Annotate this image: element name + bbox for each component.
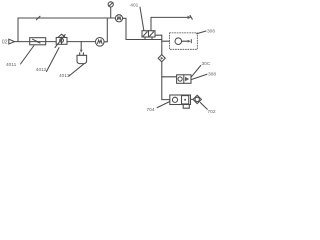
wire bottom run under valve [126, 39, 162, 41]
filter F1 diamond [158, 55, 165, 62]
wire main drop [161, 62, 163, 100]
wire input to throttle 4011 [15, 41, 30, 43]
component 4011 throttle box [30, 38, 46, 45]
leader 704 [157, 102, 169, 108]
svg-text:401: 401 [130, 3, 138, 9]
svg-text:4011: 4011 [6, 62, 17, 68]
svg-text:4013: 4013 [59, 73, 70, 79]
wire mid riser [161, 35, 163, 54]
dashed enclosure 306 [170, 33, 198, 49]
gauge G1 circle [115, 15, 122, 22]
leader 308 [192, 74, 207, 79]
wire branch to pressure switch [162, 76, 177, 78]
leader 4012 [47, 48, 60, 72]
wire branch down to silencer 4013 [80, 42, 82, 51]
vent stem [110, 7, 112, 18]
wire 4011 to regulator 4012 [46, 41, 57, 43]
wire lubricator to coupling [191, 98, 194, 100]
wire regulator to meter M [67, 41, 96, 43]
port arrow top right [188, 15, 193, 19]
svg-text:308: 308 [208, 72, 216, 78]
wire meter to right riser [104, 41, 107, 43]
svg-text:702: 702 [208, 109, 216, 115]
leader 30C [191, 66, 201, 78]
silencer 4013 flask [77, 53, 87, 64]
svg-text:704: 704 [147, 107, 155, 113]
wire right riser to top bus [106, 18, 108, 42]
wire into dashed box [162, 40, 170, 42]
valve 401 two-position [142, 31, 155, 40]
wire valve right exit [155, 34, 162, 36]
wire valve top stub [150, 17, 152, 30]
svg-text:306: 306 [207, 29, 215, 35]
pressure switch 30C [177, 75, 191, 84]
wire tick on top bus [36, 16, 40, 20]
node 02 input triangle [9, 39, 15, 44]
wire top horizontal bus [18, 17, 115, 19]
meter M1 circle [96, 38, 105, 47]
wire top right run [151, 16, 188, 18]
svg-text:4012: 4012 [36, 67, 47, 73]
leader 401 [140, 7, 144, 30]
lubricator 704 [170, 95, 191, 108]
wire bottom corner [162, 99, 170, 101]
quick coupling 702 diamond [193, 95, 201, 103]
gauge inside box [175, 38, 191, 45]
leader 4013 [69, 64, 84, 76]
vent circle [108, 2, 113, 7]
leader 306 [197, 31, 206, 34]
leader 702 [200, 103, 207, 110]
silencer arrow [80, 50, 83, 53]
wire gauge to drop riser [123, 18, 126, 39]
wire left riser [17, 18, 19, 42]
regulator 4012 [55, 34, 67, 47]
svg-text:30C: 30C [202, 61, 211, 67]
leader 4011 [21, 46, 35, 65]
svg-text:02: 02 [2, 39, 8, 45]
